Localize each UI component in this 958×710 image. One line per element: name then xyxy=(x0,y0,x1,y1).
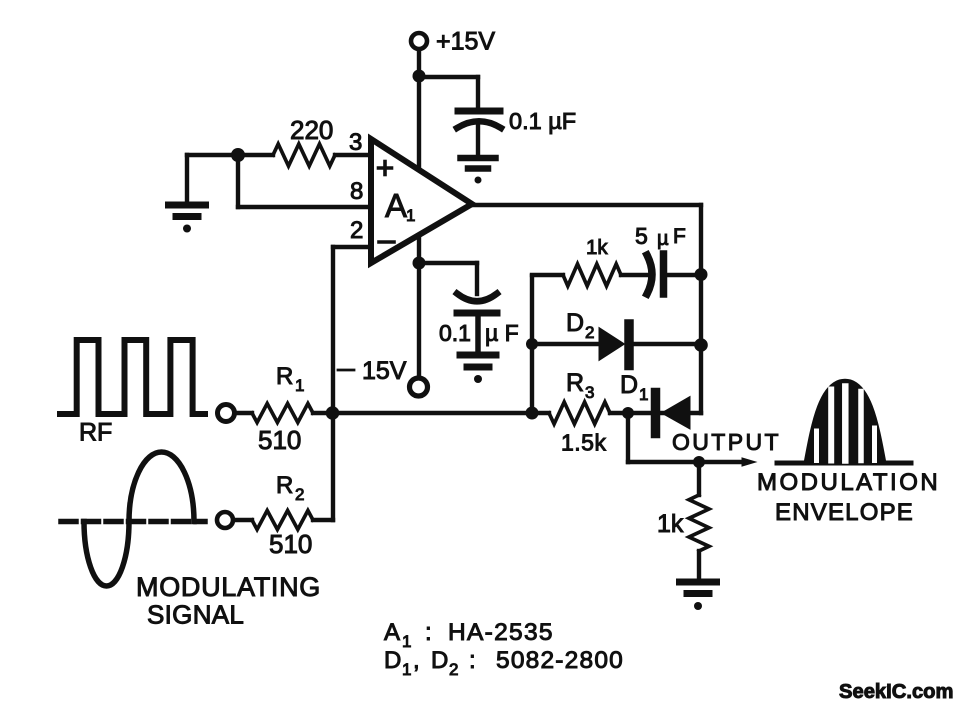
svg-text:+15V: +15V xyxy=(436,28,495,56)
svg-text:2: 2 xyxy=(295,485,304,504)
svg-text:1: 1 xyxy=(406,206,415,225)
svg-text:D: D xyxy=(431,647,448,674)
svg-text:µ: µ xyxy=(657,228,669,250)
svg-text:MODULATION: MODULATION xyxy=(757,469,940,496)
svg-text:RF: RF xyxy=(79,419,112,447)
svg-text::: : xyxy=(469,647,476,674)
svg-text:ENVELOPE: ENVELOPE xyxy=(775,499,914,526)
svg-text:SIGNAL: SIGNAL xyxy=(147,600,244,630)
svg-text:2: 2 xyxy=(449,660,458,679)
svg-text:220: 220 xyxy=(290,115,333,145)
svg-text:SeekIC.com: SeekIC.com xyxy=(839,681,953,703)
svg-text:8: 8 xyxy=(350,178,363,205)
svg-text:,: , xyxy=(413,647,420,674)
svg-text:R: R xyxy=(566,369,584,397)
svg-text:510: 510 xyxy=(269,529,312,559)
svg-text:3: 3 xyxy=(585,383,594,402)
svg-text:1k: 1k xyxy=(657,510,684,538)
svg-text:MODULATING: MODULATING xyxy=(136,572,321,602)
svg-text:2: 2 xyxy=(585,323,594,342)
svg-text:A: A xyxy=(384,619,400,646)
svg-text:OUTPUT: OUTPUT xyxy=(672,429,781,455)
svg-text:1: 1 xyxy=(402,632,411,651)
svg-text:D: D xyxy=(620,371,638,399)
svg-text:510: 510 xyxy=(258,425,301,455)
svg-text:R: R xyxy=(276,472,293,499)
svg-text:A: A xyxy=(385,187,407,224)
svg-text:HA-2535: HA-2535 xyxy=(448,619,554,646)
svg-text:1: 1 xyxy=(639,385,648,404)
svg-text:D: D xyxy=(384,647,401,674)
svg-text:3: 3 xyxy=(349,129,362,156)
svg-text:1: 1 xyxy=(295,376,304,395)
svg-text:5: 5 xyxy=(635,223,648,249)
svg-text:5082-2800: 5082-2800 xyxy=(496,647,624,674)
svg-text:1.5k: 1.5k xyxy=(561,430,606,456)
svg-text:2: 2 xyxy=(350,217,363,244)
svg-text:R: R xyxy=(276,363,293,390)
svg-text::: : xyxy=(425,619,432,646)
svg-text:15V: 15V xyxy=(362,357,407,385)
svg-text:D: D xyxy=(566,309,584,337)
svg-text:0.1: 0.1 xyxy=(439,320,471,346)
svg-text:0.1 µF: 0.1 µF xyxy=(509,108,576,134)
svg-text:µ F: µ F xyxy=(485,320,519,346)
svg-text:1: 1 xyxy=(402,660,411,679)
svg-text:F: F xyxy=(673,225,686,248)
svg-text:1k: 1k xyxy=(586,236,608,259)
